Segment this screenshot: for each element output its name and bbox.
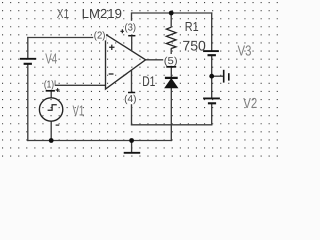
junction dot V1 bottom [49,138,54,143]
wire V2 bottom stem [211,103,213,125]
svg-text:(2): (2) [94,30,106,41]
wire bottom ground rail [27,140,172,142]
op-amp U: comparator triangle [106,34,146,89]
pin label (5) [163,54,178,66]
wire R1 top lead [170,13,172,27]
source V1 minus mark [56,124,60,126]
resistor R1 zigzag [166,27,176,48]
pin label (4) [124,92,138,104]
wire R1 bottom lead [170,48,172,60]
wire pin4 stem [131,70,133,126]
pin label (1) [43,78,54,90]
svg-text:V2: V2 [243,96,257,112]
svg-text:V1: V1 [73,103,85,119]
wire V3 top stem [211,12,213,51]
svg-text:V3: V3 [238,44,252,60]
wire V1 bottom stem [50,121,52,141]
plus mark near pin3 [120,29,124,33]
svg-text:D1: D1 [142,73,155,89]
svg-text:(3): (3) [125,23,137,34]
ground bar [124,152,141,154]
svg-text:X1: X1 [57,6,69,21]
svg-text:750: 750 [182,38,206,54]
pin3 T-bar below label [128,35,135,37]
source V1 circle [39,98,62,121]
wire pin1 end tick [54,80,56,85]
wire V1 top stem [50,91,52,98]
svg-text:LM219: LM219 [82,6,122,21]
pin label (3) [124,21,137,33]
svg-text:(1): (1) [44,79,54,90]
diode D1 top pin bar [166,66,176,68]
diode D1 cathode bar [165,77,178,79]
svg-text:(4): (4) [124,94,136,105]
junction dot ground [129,138,134,143]
svg-text:(5): (5) [164,56,178,67]
terminal short bar right of node [228,73,230,80]
wire D1 top stem [170,60,172,78]
wire V2 top stem [211,76,213,98]
grid dots [2,2,278,157]
pin label (2) [93,29,106,41]
terminal long bar right of node [223,70,225,83]
wire stub right of V2-V3 node [212,75,224,77]
junction dot V2-V3 node [209,74,214,79]
source V1 plus mark [56,88,60,92]
wire V3 bottom stem [211,55,213,76]
pin3 stem below T-bar [131,36,133,52]
op-amp minus input mark [109,73,114,75]
svg-text:V4: V4 [45,51,57,67]
wire D1 bottom stem to ground rail [170,87,172,141]
source V1 top terminal bar [46,90,55,92]
svg-text:R1: R1 [185,19,199,34]
diode D1 filled triangle [165,79,178,88]
battery V3 [203,50,219,52]
battery V4 [20,58,36,60]
pin4 T-bar above label [128,92,135,94]
wire pin1 net V1 to comparator [55,84,106,86]
junction dot top rail / R1 [169,11,174,16]
wire pin4 to V2 bottom [131,124,212,126]
op-amp plus input mark [109,45,114,50]
source V1 square-wave glyph [48,105,57,110]
wire V4 top stem [27,37,29,59]
wire top rail pin3 to V3 [132,12,213,14]
battery V2 [203,97,220,99]
wire output pin5 [145,59,172,61]
wire V4 bottom stem [27,64,29,141]
ground stem bottom center [131,141,133,153]
wire pin3 stub from rail [131,12,133,22]
wire pin2 net V4 to comparator [27,37,105,39]
